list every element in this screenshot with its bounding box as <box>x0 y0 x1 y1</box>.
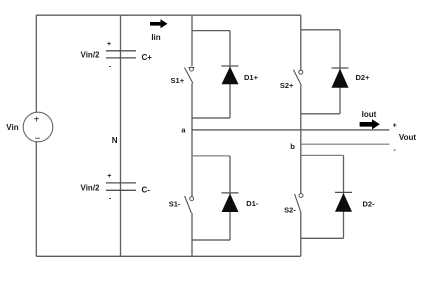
switch S2- <box>284 194 303 215</box>
svg-text:+: + <box>107 173 111 180</box>
svg-text:C+: C+ <box>142 53 153 62</box>
diode D1- branch <box>192 156 259 240</box>
wire leg1 bottom <box>191 213 193 256</box>
svg-text:−: − <box>35 134 41 145</box>
wire left lower <box>35 142 37 256</box>
svg-text:b: b <box>290 142 295 151</box>
diode D2- branch <box>301 155 375 238</box>
svg-text:Vin/2: Vin/2 <box>81 50 101 59</box>
wire bottom bus <box>36 255 301 257</box>
svg-text:S2-: S2- <box>284 206 296 215</box>
wire leg1 mid <box>191 84 193 197</box>
wire leg1 top <box>191 15 193 66</box>
svg-text:Iin: Iin <box>151 33 160 42</box>
svg-text:+: + <box>393 122 397 129</box>
wire dc-link <box>120 15 122 256</box>
wire leg2 bottom <box>300 211 302 256</box>
svg-text:D2+: D2+ <box>356 73 371 82</box>
svg-text:Vout: Vout <box>399 133 417 142</box>
svg-text:D1+: D1+ <box>244 73 259 82</box>
svg-text:C-: C- <box>142 185 151 194</box>
svg-text:Vin/2: Vin/2 <box>81 183 101 192</box>
svg-text:N: N <box>112 136 118 145</box>
switch S1- <box>169 196 194 213</box>
node a / output line a <box>181 125 389 134</box>
switch S1+ <box>171 67 195 85</box>
switch S2+ <box>280 70 303 90</box>
diode D2+ branch <box>301 30 370 114</box>
wire leg2 top <box>300 15 302 70</box>
wire leg2 mid <box>300 85 302 193</box>
capacitor C- <box>81 173 151 203</box>
svg-text:S1-: S1- <box>169 199 181 208</box>
svg-text:Iout: Iout <box>362 110 377 119</box>
diode D1+ branch <box>192 31 259 118</box>
wire top bus <box>36 14 301 16</box>
source Vin <box>6 112 53 144</box>
svg-text:D1-: D1- <box>246 199 259 208</box>
svg-text:D2-: D2- <box>362 200 375 209</box>
node b / output line b <box>290 142 389 151</box>
arrow Iout <box>360 119 380 129</box>
svg-text:+: + <box>107 41 111 48</box>
capacitor C+ <box>81 41 153 71</box>
wire left upper <box>35 15 37 112</box>
svg-text:Vin: Vin <box>6 123 18 132</box>
svg-text:S2+: S2+ <box>280 81 294 90</box>
svg-text:+: + <box>34 114 40 125</box>
arrow Iin <box>150 19 168 28</box>
svg-text:S1+: S1+ <box>171 76 185 85</box>
